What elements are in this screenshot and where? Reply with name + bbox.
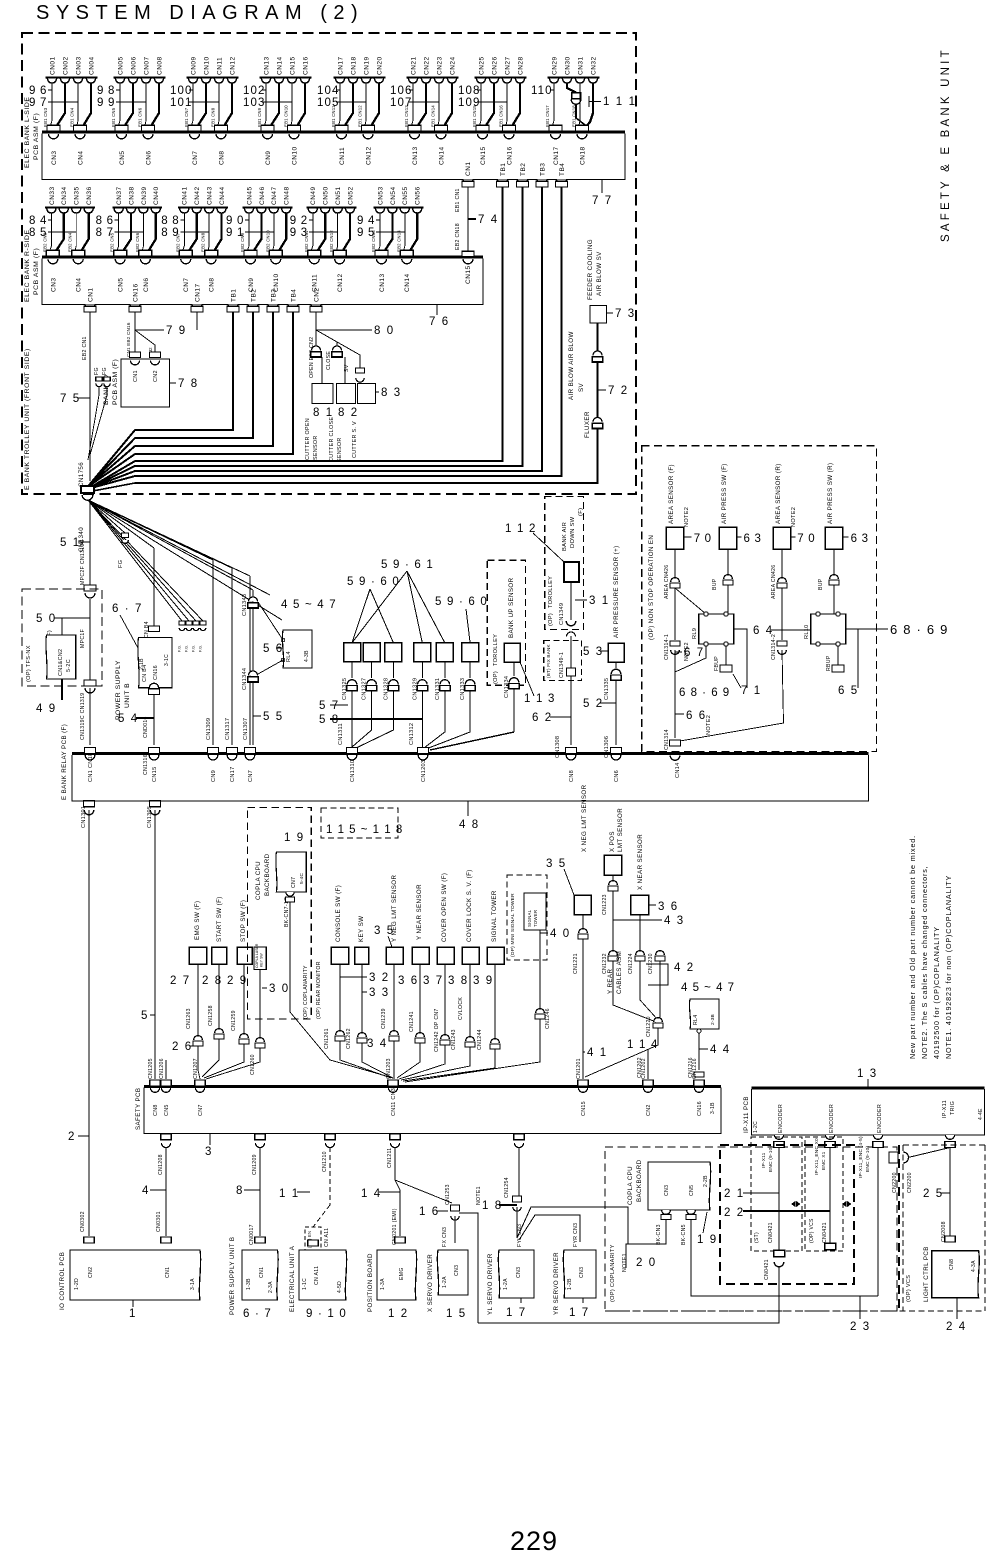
svg-text:CN1 CN18: CN1 CN18 bbox=[88, 753, 94, 782]
svg-text:CN49: CN49 bbox=[310, 186, 317, 205]
svg-text:CN1261: CN1261 bbox=[324, 1028, 330, 1049]
svg-text:2: 2 bbox=[68, 1131, 76, 1143]
svg-text:IP-X11 PCB: IP-X11 PCB bbox=[743, 1096, 750, 1133]
svg-text:ELECTRICAL UNIT A: ELECTRICAL UNIT A bbox=[289, 1245, 296, 1312]
svg-text:CN17: CN17 bbox=[230, 766, 236, 782]
svg-text:CN55: CN55 bbox=[402, 186, 409, 205]
svg-text:E BANK TROLLEY UNIT (FRONT SID: E BANK TROLLEY UNIT (FRONT SIDE) bbox=[24, 348, 31, 490]
svg-text:CN4: CN4 bbox=[77, 150, 84, 165]
svg-text:4-3B: 4-3B bbox=[304, 650, 310, 662]
connector CN14 on R-side PCB bbox=[402, 259, 412, 264]
svg-text:CN52: CN52 bbox=[347, 186, 354, 205]
svg-text:CN16: CN16 bbox=[506, 146, 513, 165]
svg-text:7 1: 7 1 bbox=[741, 685, 762, 697]
svg-text:IO CONTROL PCB: IO CONTROL PCB bbox=[59, 1252, 66, 1310]
svg-text:CN6: CN6 bbox=[145, 150, 152, 165]
connector CN5 on R-side PCB bbox=[115, 259, 125, 264]
svg-text:CN24: CN24 bbox=[449, 56, 456, 75]
wire VCS encoder bbox=[829, 1148, 831, 1244]
svg-text:104: 104 bbox=[317, 85, 340, 97]
svg-text:3 5: 3 5 bbox=[374, 925, 395, 937]
connector CN10 on L-side PCB bbox=[289, 134, 299, 139]
svg-text:STOP SW (F): STOP SW (F) bbox=[240, 900, 247, 942]
svg-text:TB2: TB2 bbox=[250, 289, 257, 302]
svg-text:BK-CN5: BK-CN5 bbox=[681, 1224, 687, 1245]
svg-text:3 0: 3 0 bbox=[269, 983, 290, 995]
svg-text:F.G.: F.G. bbox=[199, 645, 203, 652]
svg-text:CN1349: CN1349 bbox=[559, 603, 565, 625]
svg-text:NOTE1: NOTE1 bbox=[622, 1253, 628, 1272]
svg-text:70: 70 bbox=[797, 533, 819, 545]
svg-text:MPC1F: MPC1F bbox=[80, 629, 86, 648]
svg-text:CN14: CN14 bbox=[276, 56, 283, 75]
svg-text:1 2: 1 2 bbox=[388, 1308, 409, 1320]
svg-text:EB1 CN9: EB1 CN9 bbox=[257, 107, 262, 127]
svg-text:CN9: CN9 bbox=[265, 150, 272, 165]
dashed box (OP) MINI SIGNAL TOWER bbox=[507, 875, 547, 960]
svg-text:DOWN SW: DOWN SW bbox=[570, 516, 576, 548]
svg-text:LIGHT CTRL PCB: LIGHT CTRL PCB bbox=[923, 1246, 930, 1302]
svg-text:CN5: CN5 bbox=[689, 1185, 695, 1196]
svg-text:CN1244: CN1244 bbox=[477, 1029, 483, 1050]
svg-text:1 1: 1 1 bbox=[279, 1188, 300, 1200]
svg-text:1 3: 1 3 bbox=[857, 1068, 878, 1080]
wire EB2 CN1 to hub bbox=[89, 312, 91, 481]
svg-text:6 6: 6 6 bbox=[686, 710, 707, 722]
svg-text:95: 95 bbox=[357, 227, 379, 239]
connector CN1208 bbox=[161, 1134, 172, 1140]
svg-text:(OP) VCS: (OP) VCS bbox=[906, 1275, 912, 1302]
svg-text:CN1: CN1 bbox=[465, 161, 472, 176]
svg-text:CN1207: CN1207 bbox=[193, 1058, 199, 1079]
svg-text:CN09: CN09 bbox=[190, 56, 197, 75]
svg-text:4 3: 4 3 bbox=[664, 915, 685, 927]
svg-text:CN7: CN7 bbox=[198, 1104, 204, 1116]
svg-text:CN1223: CN1223 bbox=[602, 894, 608, 915]
svg-text:1 8: 1 8 bbox=[482, 1200, 503, 1212]
svg-text:3 6: 3 6 bbox=[398, 975, 419, 987]
svg-text:2 4: 2 4 bbox=[946, 1321, 967, 1333]
relay connector CN1316 bbox=[149, 748, 160, 754]
svg-text:NOTE2: NOTE2 bbox=[684, 507, 690, 527]
svg-text:FYL CN3: FYL CN3 bbox=[517, 1224, 523, 1247]
svg-text:3-1B: 3-1B bbox=[710, 1102, 716, 1114]
svg-text:CN1201: CN1201 bbox=[576, 1058, 582, 1079]
svg-text:CN43: CN43 bbox=[207, 186, 214, 205]
svg-text:CN03: CN03 bbox=[75, 56, 82, 75]
svg-text:CN47: CN47 bbox=[271, 186, 278, 205]
svg-text:4-3A: 4-3A bbox=[971, 1260, 977, 1272]
svg-text:1 1 2: 1 1 2 bbox=[505, 523, 537, 535]
svg-text:63: 63 bbox=[851, 533, 873, 545]
connector CN1210 bbox=[325, 1134, 336, 1140]
svg-text:CN1&CN2: CN1&CN2 bbox=[58, 649, 64, 676]
svg-text:NOTE2. The S cables have chang: NOTE2. The S cables have changed connect… bbox=[920, 866, 929, 1060]
svg-text:CN1335: CN1335 bbox=[604, 678, 610, 700]
svg-text:CN29: CN29 bbox=[551, 56, 558, 75]
dashed box (ST) bbox=[751, 1137, 802, 1251]
svg-text:CN1309: CN1309 bbox=[206, 718, 212, 740]
wires group CN01-CN04 bbox=[51, 83, 53, 125]
connector CN1209 bbox=[255, 1134, 265, 1140]
wire TB3 (row1) to hub bbox=[88, 187, 543, 489]
svg-text:ENC X1: ENC X1 bbox=[821, 1151, 827, 1170]
svg-text:CN0421: CN0421 bbox=[768, 1222, 774, 1243]
svg-text:CN7: CN7 bbox=[183, 277, 190, 292]
svg-text:2 5: 2 5 bbox=[923, 1188, 944, 1200]
svg-text:UNIT B: UNIT B bbox=[124, 683, 131, 708]
svg-text:CN17: CN17 bbox=[553, 146, 560, 165]
svg-text:CN1209: CN1209 bbox=[252, 1154, 258, 1175]
svg-text:5-2C: 5-2C bbox=[66, 659, 72, 672]
svg-text:CN1208: CN1208 bbox=[158, 1154, 164, 1175]
svg-text:CN32: CN32 bbox=[590, 56, 597, 75]
svg-text:CN15: CN15 bbox=[465, 265, 472, 284]
svg-text:CN10: CN10 bbox=[203, 56, 210, 75]
connector CN1211 bbox=[390, 1134, 401, 1140]
svg-text:X POS: X POS bbox=[609, 831, 616, 852]
svg-text:3 2: 3 2 bbox=[369, 972, 390, 984]
dashed box COPLA CPU BACKBOARD (mid) bbox=[248, 808, 312, 1020]
torn box CN7 bbox=[276, 852, 306, 892]
svg-text:CN3: CN3 bbox=[579, 1267, 585, 1278]
svg-text:CN8: CN8 bbox=[218, 150, 225, 165]
svg-text:CN5: CN5 bbox=[164, 1104, 170, 1116]
svg-text:2-3B: 2-3B bbox=[710, 1014, 716, 1025]
svg-text:CN1206: CN1206 bbox=[159, 1058, 165, 1079]
svg-text:CN7: CN7 bbox=[291, 877, 297, 888]
svg-text:CN33: CN33 bbox=[49, 186, 56, 205]
svg-text:FG: FG bbox=[94, 367, 100, 375]
svg-text:CN01: CN01 bbox=[49, 56, 56, 75]
svg-text:6 5: 6 5 bbox=[838, 685, 859, 697]
svg-text:CN05: CN05 bbox=[117, 56, 124, 75]
svg-text:(OP) REAR MONITOR: (OP) REAR MONITOR bbox=[316, 961, 322, 1019]
svg-text:109: 109 bbox=[458, 97, 481, 109]
wire ST encoder bbox=[778, 1148, 780, 1251]
svg-text:1-1C: 1-1C bbox=[302, 1278, 308, 1290]
svg-text:96: 96 bbox=[29, 85, 51, 97]
svg-text:CN46: CN46 bbox=[259, 186, 266, 205]
connector CN7 on R-side PCB bbox=[181, 259, 191, 264]
wires group CN33-CN36 bbox=[50, 213, 52, 250]
svg-text:1 7: 1 7 bbox=[569, 1307, 590, 1319]
connector fluxer bbox=[593, 417, 602, 422]
svg-text:SAFETY & E BANK UNIT: SAFETY & E BANK UNIT bbox=[940, 47, 952, 242]
connector CN1212 bbox=[514, 1134, 525, 1140]
svg-text:CN48: CN48 bbox=[284, 186, 291, 205]
wires group CN05-CN08 bbox=[119, 83, 121, 125]
svg-text:(OP) COPLANARITY: (OP) COPLANARITY bbox=[610, 1244, 616, 1302]
svg-text:COVER OPEN SW (F): COVER OPEN SW (F) bbox=[441, 873, 448, 942]
svg-text:CN31: CN31 bbox=[577, 56, 584, 75]
svg-text:TB2: TB2 bbox=[520, 163, 527, 176]
svg-text:AREA CN426: AREA CN426 bbox=[664, 565, 670, 599]
svg-text:CABLES ASM: CABLES ASM bbox=[616, 951, 623, 994]
connector CN16 on L-side PCB bbox=[504, 134, 514, 139]
svg-text:CN5: CN5 bbox=[119, 150, 126, 165]
svg-text:AREA SENSOR (R): AREA SENSOR (R) bbox=[775, 463, 782, 524]
svg-text:93: 93 bbox=[290, 227, 312, 239]
svg-text:CN1210: CN1210 bbox=[322, 1151, 328, 1172]
svg-text:X NEAR SENSOR: X NEAR SENSOR bbox=[637, 834, 644, 890]
svg-text:EB1 CN3: EB1 CN3 bbox=[43, 107, 48, 127]
svg-text:CN45: CN45 bbox=[246, 186, 253, 205]
svg-text:CN25: CN25 bbox=[478, 56, 485, 75]
svg-text:CN2200: CN2200 bbox=[892, 1172, 898, 1193]
dashed box (OP) NON STOP OPERATION EN bbox=[642, 446, 877, 752]
svg-text:CND016: CND016 bbox=[143, 716, 149, 738]
svg-text:1 1 5 ~ 1 1 8: 1 1 5 ~ 1 1 8 bbox=[326, 824, 403, 836]
svg-text:IP-X11: IP-X11 bbox=[761, 1152, 767, 1168]
svg-text:CN26: CN26 bbox=[491, 56, 498, 75]
wires group CN13-CN16 bbox=[265, 83, 267, 125]
wire TB1 (row1) to hub bbox=[88, 187, 503, 489]
wires group CN17-CN20 bbox=[339, 83, 341, 125]
svg-text:1-3B: 1-3B bbox=[246, 1278, 252, 1290]
svg-text:EB1 CN10: EB1 CN10 bbox=[284, 105, 289, 127]
svg-text:FYR CN3: FYR CN3 bbox=[573, 1223, 579, 1247]
svg-text:CN16: CN16 bbox=[153, 665, 159, 680]
svg-text:(OP) MINI SIGNAL TOWER: (OP) MINI SIGNAL TOWER bbox=[510, 893, 516, 957]
svg-text:1: 1 bbox=[129, 1308, 137, 1320]
svg-text:5 7: 5 7 bbox=[319, 700, 340, 712]
dashed enclosure E BANK TROLLEY UNIT bbox=[22, 33, 636, 494]
CUTTER OPEN SENSOR bbox=[312, 384, 333, 404]
FG quad connectors bbox=[179, 621, 185, 625]
svg-text:(ST): (ST) bbox=[754, 1232, 760, 1243]
svg-text:8: 8 bbox=[236, 1185, 244, 1197]
svg-text:6 8 · 6 9: 6 8 · 6 9 bbox=[890, 622, 949, 637]
svg-text:TB4: TB4 bbox=[559, 163, 566, 176]
svg-text:RL4: RL4 bbox=[693, 1015, 699, 1025]
svg-text:RBUP: RBUP bbox=[826, 655, 832, 671]
svg-text:7 7: 7 7 bbox=[592, 195, 613, 207]
svg-text:91: 91 bbox=[226, 227, 248, 239]
svg-text:CN8: CN8 bbox=[209, 277, 216, 292]
svg-text:2-3A: 2-3A bbox=[268, 1281, 274, 1293]
svg-text:EB1 CN8: EB1 CN8 bbox=[211, 107, 216, 127]
svg-text:CN1220: CN1220 bbox=[646, 1016, 652, 1037]
svg-text:COPLA CPU: COPLA CPU bbox=[627, 1166, 634, 1205]
svg-text:AIR PRESS SW (R): AIR PRESS SW (R) bbox=[827, 463, 834, 524]
svg-text:2 8: 2 8 bbox=[202, 975, 223, 987]
sensor box CN1325 bbox=[344, 643, 361, 662]
svg-text:5 9 · 6 1: 5 9 · 6 1 bbox=[381, 559, 434, 571]
svg-text:CN14: CN14 bbox=[438, 146, 445, 165]
link CN1 to CN18 (74) bbox=[467, 187, 469, 251]
svg-text:CN1211: CN1211 bbox=[387, 1148, 393, 1168]
relay connector CN1308 bbox=[566, 748, 577, 754]
svg-text:ENCODER: ENCODER bbox=[877, 1104, 883, 1133]
svg-text:POWER SUPPLY UNIT B: POWER SUPPLY UNIT B bbox=[229, 1237, 236, 1315]
svg-text:CN8: CN8 bbox=[569, 770, 575, 782]
wire CN1209 to PSU bbox=[259, 1147, 261, 1236]
svg-text:AREA SENSOR (F): AREA SENSOR (F) bbox=[668, 464, 675, 524]
svg-text:CN14: CN14 bbox=[675, 762, 681, 778]
wires group CN09-CN12 bbox=[192, 83, 194, 125]
wire CN1210 to ELEC UNIT A (dashed) bbox=[329, 1147, 331, 1205]
relay connector CN1306 bbox=[611, 748, 622, 754]
svg-text:CN3: CN3 bbox=[454, 1265, 460, 1276]
svg-text:CN18: CN18 bbox=[350, 56, 357, 75]
svg-text:CN1205: CN1205 bbox=[148, 1058, 154, 1079]
svg-text:98: 98 bbox=[97, 85, 119, 97]
svg-text:97: 97 bbox=[29, 97, 51, 109]
connector CN6 on L-side PCB bbox=[143, 134, 153, 139]
svg-text:EB2 CN1: EB2 CN1 bbox=[82, 336, 88, 360]
svg-text:5 4: 5 4 bbox=[118, 713, 139, 725]
svg-text:CN17: CN17 bbox=[337, 56, 344, 75]
svg-text:3-1A: 3-1A bbox=[190, 1278, 196, 1290]
svg-text:CN7: CN7 bbox=[248, 770, 254, 782]
connector CN10 on R-side PCB bbox=[271, 259, 281, 264]
svg-text:CN16: CN16 bbox=[697, 1101, 703, 1116]
svg-text:CN44: CN44 bbox=[219, 186, 226, 205]
svg-text:BANK UP SENSOR: BANK UP SENSOR bbox=[508, 577, 515, 638]
svg-text:F.G.: F.G. bbox=[192, 645, 196, 652]
connector CN14 on L-side PCB bbox=[436, 134, 446, 139]
svg-text:BANK AIR: BANK AIR bbox=[562, 522, 568, 551]
svg-text:2-1B: 2-1B bbox=[139, 658, 145, 670]
dashed (OP)EN box bbox=[305, 1227, 321, 1250]
wires group CN45-CN48 bbox=[248, 213, 250, 250]
svg-text:CN1307: CN1307 bbox=[243, 718, 249, 740]
svg-text:CN14: CN14 bbox=[404, 273, 411, 292]
svg-text:94: 94 bbox=[357, 215, 379, 227]
svg-text:4: 4 bbox=[142, 1185, 150, 1197]
connector CN3 on L-side PCB bbox=[49, 134, 59, 139]
svg-text:CN22: CN22 bbox=[423, 56, 430, 75]
svg-text:7 2: 7 2 bbox=[608, 385, 629, 397]
svg-text:7 5: 7 5 bbox=[60, 393, 81, 405]
svg-text:EB1 CN7: EB1 CN7 bbox=[184, 107, 189, 127]
svg-text:PCB ASM (F): PCB ASM (F) bbox=[112, 359, 119, 405]
svg-text:8 2: 8 2 bbox=[338, 407, 359, 419]
wire TB2 (row2) to hub bbox=[88, 312, 254, 487]
sensor box CN1328 bbox=[385, 643, 402, 662]
svg-text:CN06: CN06 bbox=[130, 56, 137, 75]
svg-text:90: 90 bbox=[226, 215, 248, 227]
connector CN12 on L-side PCB bbox=[363, 134, 373, 139]
svg-text:2 9: 2 9 bbox=[227, 975, 248, 987]
svg-text:TB1: TB1 bbox=[500, 163, 507, 176]
sensor box CN1327 bbox=[363, 643, 380, 662]
svg-text:TOROLLEY: TOROLLEY bbox=[548, 576, 554, 608]
svg-text:CN1316: CN1316 bbox=[143, 754, 149, 775]
svg-text:POWER SUPPLY: POWER SUPPLY bbox=[115, 660, 122, 720]
svg-text:5 6: 5 6 bbox=[263, 643, 284, 655]
connector CN17 on L-side PCB bbox=[551, 134, 561, 139]
svg-text:CN1314-2: CN1314-2 bbox=[771, 634, 777, 660]
svg-text:(F): (F) bbox=[578, 508, 584, 516]
PCB bar ELEC BANK L-SIDE bbox=[42, 130, 625, 133]
svg-text:CN0421: CN0421 bbox=[764, 1259, 770, 1280]
svg-text:99: 99 bbox=[97, 97, 119, 109]
svg-text:CN1312: CN1312 bbox=[409, 723, 415, 745]
svg-text:CN1: CN1 bbox=[133, 370, 139, 382]
svg-text:100: 100 bbox=[170, 85, 193, 97]
svg-text:7 6: 7 6 bbox=[429, 316, 450, 328]
svg-text:3 8: 3 8 bbox=[448, 975, 469, 987]
svg-text:108: 108 bbox=[458, 85, 481, 97]
svg-text:4-4E: 4-4E bbox=[978, 1108, 984, 1120]
connector CN15 on L-side PCB bbox=[478, 134, 488, 139]
svg-text:SENSOR: SENSOR bbox=[313, 435, 319, 460]
svg-text:CN13: CN13 bbox=[412, 146, 419, 165]
wire TB3 (row2) to hub bbox=[88, 312, 274, 487]
svg-text:BACKBOARD: BACKBOARD bbox=[264, 853, 271, 896]
svg-text:CN16: CN16 bbox=[132, 283, 139, 302]
svg-text:2 3: 2 3 bbox=[850, 1321, 871, 1333]
svg-text:9 · 1 0: 9 · 1 0 bbox=[306, 1308, 347, 1320]
svg-text:NOTE2: NOTE2 bbox=[791, 507, 797, 527]
wires group CN25-CN28 bbox=[480, 83, 482, 125]
svg-text:COPLA LASER: COPLA LASER bbox=[255, 943, 259, 968]
svg-text:1-2C: 1-2C bbox=[753, 1121, 759, 1133]
svg-text:CN6: CN6 bbox=[614, 770, 620, 782]
svg-text:CN1202: CN1202 bbox=[641, 1058, 647, 1079]
svg-text:2 7: 2 7 bbox=[170, 975, 191, 987]
svg-text:PCB ASM (F): PCB ASM (F) bbox=[33, 113, 40, 160]
svg-text:CN1243: CN1243 bbox=[451, 1029, 457, 1050]
svg-text:CN1258: CN1258 bbox=[208, 1005, 214, 1026]
svg-text:CN18: CN18 bbox=[579, 146, 586, 165]
svg-text:CN40: CN40 bbox=[153, 186, 160, 205]
svg-text:1 1 4: 1 1 4 bbox=[627, 1039, 659, 1051]
svg-text:40192500 for (OP)COPLANALITY: 40192500 for (OP)COPLANALITY bbox=[932, 926, 941, 1059]
svg-text:CUTTER OPEN: CUTTER OPEN bbox=[305, 418, 311, 460]
svg-text:X NEG LMT SENSOR: X NEG LMT SENSOR bbox=[581, 784, 588, 852]
svg-text:5-4C: 5-4C bbox=[299, 872, 305, 884]
svg-text:3 9: 3 9 bbox=[473, 975, 494, 987]
svg-text:CN1239: CN1239 bbox=[381, 1008, 387, 1029]
svg-text:84: 84 bbox=[29, 215, 51, 227]
svg-text:(BT) FIX BANK: (BT) FIX BANK bbox=[546, 644, 551, 678]
svg-text:NOTE2: NOTE2 bbox=[706, 715, 712, 735]
svg-text:101: 101 bbox=[170, 97, 193, 109]
svg-text:1-2A: 1-2A bbox=[442, 1276, 448, 1288]
svg-text:SAFETY PCB: SAFETY PCB bbox=[135, 1088, 142, 1130]
connector BK-CN3 bbox=[662, 1210, 671, 1214]
svg-text:CN12: CN12 bbox=[365, 146, 372, 165]
wire feeder column bbox=[597, 323, 599, 351]
svg-text:CN04: CN04 bbox=[88, 56, 95, 75]
svg-text:5 3: 5 3 bbox=[583, 646, 604, 658]
CUTTER CLOSE SENSOR bbox=[337, 384, 356, 404]
svg-text:CVLOCK: CVLOCK bbox=[458, 997, 464, 1020]
svg-text:EMG SW (F): EMG SW (F) bbox=[194, 901, 201, 940]
svg-text:CN12: CN12 bbox=[337, 273, 344, 292]
svg-text:RL10: RL10 bbox=[804, 624, 810, 639]
wire CN1343/CN1344 column bbox=[252, 590, 254, 597]
FG connector mid bbox=[122, 533, 129, 538]
connector CN4 on R-side PCB bbox=[73, 259, 83, 264]
svg-text:CN9: CN9 bbox=[211, 770, 217, 782]
svg-text:4 1: 4 1 bbox=[587, 1047, 608, 1059]
svg-text:7 3: 7 3 bbox=[615, 308, 636, 320]
svg-text:FLUXER: FLUXER bbox=[584, 411, 591, 438]
connector CN6 on R-side PCB bbox=[140, 259, 150, 264]
svg-text:CN1203: CN1203 bbox=[386, 1058, 392, 1079]
svg-text:TB3: TB3 bbox=[539, 163, 546, 176]
svg-text:CN5: CN5 bbox=[118, 277, 125, 292]
svg-text:5 9 · 6 0: 5 9 · 6 0 bbox=[435, 596, 488, 608]
svg-text:YR SERVO DRIVER: YR SERVO DRIVER bbox=[553, 1252, 560, 1315]
svg-text:105: 105 bbox=[317, 97, 340, 109]
svg-text:EB2 CN6: EB2 CN6 bbox=[135, 232, 140, 252]
connector CN12 on R-side PCB bbox=[335, 259, 345, 264]
